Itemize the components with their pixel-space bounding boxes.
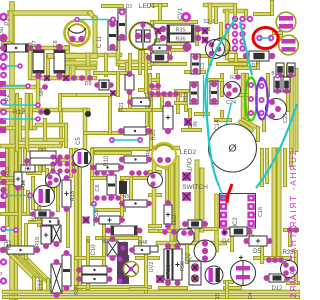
resistor R31 [164, 249, 172, 280]
wire [104, 55, 108, 75]
capacitor C23 [287, 63, 295, 76]
pad l3b [35, 102, 41, 108]
wire [214, 8, 218, 22]
annotation red circle [253, 28, 278, 49]
pad field [57, 168, 62, 173]
pad D12-1 [264, 275, 270, 281]
wire bend [90, 13, 95, 18]
capacitor C4 electrolytic [231, 256, 256, 286]
svg-text:LED: LED [172, 215, 178, 226]
diode D7 [249, 51, 269, 61]
wire [86, 55, 91, 78]
pad C9-2 [110, 255, 116, 261]
pad S3 [110, 90, 116, 96]
wire [18, 150, 22, 254]
pad l4b [35, 116, 41, 122]
pad N1 [109, 137, 115, 143]
svg-text:R26: R26 [74, 285, 80, 295]
pad D6-1 [146, 55, 152, 61]
pad row5 [108, 195, 114, 201]
pad J2-1b [239, 16, 245, 22]
svg-text:CV1: CV1 [178, 8, 184, 20]
wire [96, 151, 130, 155]
capacitor C7 electrolytic [279, 35, 299, 55]
svg-text:R7: R7 [32, 40, 38, 47]
wire [43, 120, 47, 140]
pad P2c [0, 99, 7, 106]
wire [286, 66, 290, 110]
wire [225, 226, 232, 230]
wire [67, 61, 95, 66]
wire [2, 85, 38, 90]
wire [243, 120, 258, 128]
pad R31-2 [165, 280, 171, 286]
pad R5-1 [0, 45, 6, 51]
svg-text:C 11: C 11 [97, 35, 103, 48]
connector K1 [189, 261, 201, 285]
resistor R23 [124, 127, 146, 135]
pad R36-2 [195, 35, 201, 41]
wire diagonal [26, 258, 48, 280]
pad field [64, 161, 69, 166]
resistor R5 [4, 44, 28, 52]
pad J2-5b [239, 45, 245, 51]
pad R28-2 [165, 223, 171, 229]
wire [183, 128, 200, 132]
resistor R25 [82, 266, 107, 274]
pad row5 [94, 195, 100, 201]
pad R9-2 [146, 157, 152, 163]
wire [240, 122, 252, 130]
resistor R11 [124, 200, 147, 207]
pad row2 [155, 91, 161, 97]
pad P1-4 [0, 63, 7, 70]
pad [0, 235, 6, 241]
pad R26-2 [107, 276, 113, 282]
pad TP2 [156, 275, 164, 283]
wire [225, 282, 229, 297]
wire [225, 280, 232, 284]
wire [230, 58, 246, 62]
pad IN [184, 118, 192, 126]
wire [141, 50, 145, 62]
svg-text:R10: R10 [104, 155, 110, 167]
pad P2e [259, 97, 265, 103]
wire [75, 93, 110, 97]
pad J2-7 [225, 23, 231, 29]
pad R11-1 [119, 201, 125, 207]
wire [160, 229, 176, 233]
resistor R2 [111, 226, 137, 235]
pad field [64, 168, 69, 173]
pad row [87, 75, 93, 81]
wire [152, 62, 185, 66]
wire left bus [9, 4, 15, 298]
wire [150, 93, 180, 98]
wire [26, 192, 30, 214]
transistor Q5 [224, 82, 241, 99]
pad C12-1 [64, 250, 70, 256]
pad P1-3 [0, 53, 8, 61]
wire [28, 45, 33, 78]
resistor R26 [82, 275, 107, 283]
wire [2, 181, 22, 185]
svg-text:OUT: OUT [185, 158, 192, 172]
wire [260, 150, 264, 185]
wire bottom rail [4, 290, 298, 295]
resistor R14 [30, 151, 56, 158]
diode D8 [52, 225, 61, 242]
wire [269, 258, 281, 262]
svg-text:D7: D7 [251, 63, 258, 69]
pad cy1 [2, 193, 8, 199]
diode D11 [42, 218, 58, 225]
diode D14 [119, 181, 127, 194]
wire [150, 170, 160, 174]
wire [248, 232, 258, 242]
wire [150, 193, 160, 197]
airwire left [5, 195, 30, 197]
pad J2-3a [232, 31, 238, 37]
wire [168, 44, 172, 56]
capacitor C3 electrolytic [34, 186, 55, 207]
pad [235, 74, 241, 80]
wire [255, 12, 272, 16]
wire bus [64, 48, 70, 78]
pad J2-5a [232, 45, 238, 51]
wire [160, 95, 164, 110]
svg-text:R20: R20 [151, 129, 157, 141]
wire [184, 95, 188, 110]
resistor R29 [99, 216, 120, 224]
wire [262, 120, 266, 130]
pad [0, 179, 6, 185]
capacitor C19 [274, 77, 281, 92]
transistor Q6 C21 [266, 99, 287, 120]
pad cy2 [27, 193, 33, 199]
pad R24-2 [165, 128, 171, 134]
pad J2-4b [239, 38, 245, 44]
resistor R28 [164, 205, 172, 224]
capacitor C12 [62, 255, 71, 286]
pad row4 [136, 170, 142, 176]
resistor R35 [167, 25, 194, 33]
wire [288, 281, 298, 285]
wire [145, 90, 149, 125]
svg-text:D5: D5 [253, 249, 261, 255]
svg-text:D9: D9 [84, 81, 91, 87]
svg-text:D4: D4 [222, 239, 230, 245]
pad [287, 227, 293, 233]
wire [149, 98, 153, 148]
pad R18-1 [64, 175, 70, 181]
wire [2, 144, 60, 149]
capacitor C14 [210, 81, 218, 104]
pad D5-2 [267, 238, 273, 244]
wire [244, 11, 248, 18]
wire [152, 146, 178, 151]
wire [255, 256, 290, 260]
wire [69, 150, 73, 176]
pad R7-1 [35, 44, 42, 51]
svg-text:D13: D13 [183, 92, 189, 102]
pad S8-2 [63, 75, 69, 81]
wire right bus [289, 66, 294, 150]
wire [30, 220, 58, 224]
pad row2 [173, 91, 179, 97]
wire [46, 55, 50, 78]
pad G1 [248, 82, 254, 88]
wire [96, 208, 124, 212]
pad P2-84 [0, 81, 6, 87]
pad row4 [129, 170, 135, 176]
wire [279, 30, 283, 45]
wire [137, 256, 158, 260]
pad P2-93 [0, 90, 6, 96]
pad R16-2 [15, 185, 21, 191]
pad R29-2 [119, 217, 125, 223]
pad D3-1 [182, 221, 188, 227]
pad S2-1 [202, 28, 208, 34]
pad D6-2 [167, 55, 173, 61]
pad R28-1 [165, 200, 171, 206]
wire [37, 208, 41, 225]
wire [230, 238, 234, 250]
wire [3, 41, 10, 45]
svg-text:C1: C1 [200, 62, 206, 69]
capacitor C18 octagon [177, 229, 194, 244]
wire [120, 108, 150, 112]
wire [274, 31, 281, 35]
svg-text:C6: C6 [95, 184, 101, 191]
wire [131, 287, 146, 291]
wire [196, 112, 208, 116]
trimmer RV2 [124, 262, 139, 277]
wire [39, 278, 43, 288]
capacitor C11 [108, 21, 117, 50]
pad [0, 187, 6, 193]
pad [30, 211, 36, 217]
wire [150, 22, 154, 64]
resistor R10 [96, 164, 119, 171]
pad C23 [288, 72, 294, 78]
pad row3 [266, 257, 272, 263]
pad D7-1 [243, 53, 249, 59]
diode D2 [118, 9, 126, 40]
pad via side [38, 109, 44, 115]
capacitor C6 electrolytic [276, 12, 296, 32]
svg-text:P2: P2 [5, 94, 11, 102]
capacitor C15 [205, 266, 223, 284]
wire [93, 147, 152, 151]
svg-text:R8: R8 [146, 150, 152, 157]
wire top rail [10, 10, 90, 16]
pad row [79, 75, 85, 81]
wire diagonal [6, 250, 34, 278]
wire [234, 55, 238, 72]
pad [129, 247, 135, 253]
pad R21-1 [127, 71, 133, 77]
diode D3 [188, 220, 202, 228]
wire left bus 2 [14, 150, 18, 298]
pad cyv [91, 201, 97, 207]
airwire in red circle [260, 37, 272, 39]
wire [266, 75, 270, 95]
wire [245, 75, 249, 122]
wire [76, 285, 150, 289]
wire [25, 95, 30, 150]
via 2 [85, 111, 91, 117]
wire [56, 175, 60, 210]
pad D5-1 [244, 238, 250, 244]
wire [225, 286, 240, 290]
airwire long left [205, 17, 236, 186]
wire [241, 75, 246, 120]
wire [103, 4, 122, 8]
pad S2-4 [155, 28, 161, 34]
pad R23-1 [118, 128, 124, 134]
wire [138, 52, 142, 73]
pad R25-2 [107, 267, 113, 273]
wire [220, 75, 224, 95]
pad G2 [248, 96, 254, 102]
svg-text:R15: R15 [5, 167, 11, 177]
wire [2, 176, 14, 180]
airwire mid [112, 139, 140, 141]
pad D13-1 [191, 82, 197, 88]
pad [0, 170, 6, 176]
pad J2-4a [232, 38, 238, 44]
wire [45, 170, 49, 188]
pad [0, 277, 7, 284]
pad [55, 158, 61, 164]
pad J2-1a [232, 16, 238, 22]
pad field [71, 161, 76, 166]
airwire diag mid [221, 104, 231, 148]
pad R19-2 [43, 243, 49, 249]
pad P2b [0, 109, 7, 116]
pad D2-1 [119, 9, 126, 16]
pad R35-2 [195, 26, 201, 32]
svg-text:R18: R18 [70, 191, 76, 201]
diode D9 [99, 80, 109, 90]
pad field [64, 154, 69, 159]
wire [18, 150, 22, 225]
pad R36-1 [160, 35, 166, 41]
pad R21-2 [127, 89, 133, 95]
pad field [71, 154, 76, 159]
pad D9-1 [94, 82, 100, 88]
pad C14-1 [211, 81, 217, 87]
wire [90, 150, 94, 204]
svg-text:Q2: Q2 [186, 252, 192, 261]
svg-text:R6: R6 [25, 167, 32, 173]
pad [293, 227, 299, 233]
pad row [71, 75, 77, 81]
wire [165, 168, 169, 203]
wire [256, 60, 260, 68]
wire [83, 110, 88, 150]
diode D5 [249, 236, 267, 246]
wire [170, 158, 175, 262]
svg-text:50: 50 [0, 27, 5, 33]
svg-text:S2-1: S2-1 [203, 19, 215, 25]
resistor R19 [41, 226, 51, 244]
pad P1-2 [0, 34, 8, 42]
pad P1-1 [0, 13, 8, 21]
wire [152, 3, 166, 7]
pad R17-1 [0, 247, 6, 253]
pad J2-2a [232, 23, 238, 29]
wire [53, 158, 75, 162]
pad [275, 74, 280, 79]
pad row4 [101, 170, 107, 176]
wire [28, 46, 67, 51]
svg-text:SWITCH: SWITCH [182, 184, 208, 191]
wire [24, 225, 28, 258]
pad R10-2 [118, 165, 124, 171]
pad P2-130 [0, 127, 6, 133]
capacitor CP1 electrolytic [129, 22, 157, 50]
wire [195, 27, 199, 44]
transistor Q2 [194, 240, 216, 262]
pad row4 [143, 170, 149, 176]
airwire diag [240, 22, 252, 75]
pad field [71, 168, 76, 173]
pad [42, 84, 48, 90]
airwire tail [219, 186, 223, 195]
pad C11-1 [109, 21, 116, 28]
airwire l2 [3, 85, 28, 87]
resistor R4 [134, 246, 150, 254]
pad C19 [275, 88, 281, 94]
wire [116, 73, 120, 95]
resistor R13 [30, 158, 56, 165]
wire [92, 176, 110, 180]
diode D10 [35, 210, 50, 218]
pad [49, 211, 55, 217]
LED D1 LED1 [65, 21, 90, 46]
pad R31-1 [165, 243, 171, 249]
wire [76, 256, 104, 260]
wire [185, 243, 189, 262]
diode D4 [230, 227, 247, 236]
pad row2 [149, 91, 155, 97]
capacitor C27 dark [118, 242, 128, 255]
svg-text:C15: C15 [215, 293, 221, 300]
wire [150, 224, 160, 228]
pad l2b [25, 83, 31, 89]
resistor R22 [132, 98, 150, 106]
pad D13-2 [191, 98, 197, 104]
resistor R16 [14, 172, 22, 186]
pad row5 [115, 195, 121, 201]
svg-text:C4: C4 [248, 292, 254, 299]
wire [277, 150, 282, 255]
resistor R18 [62, 180, 71, 207]
pad P3e [259, 110, 265, 116]
wire [202, 54, 210, 58]
pad C13-2 [54, 292, 60, 298]
via [44, 109, 51, 116]
svg-text:C5: C5 [76, 137, 82, 145]
wire [144, 255, 148, 292]
wire [200, 170, 205, 230]
wire [270, 2, 274, 14]
resistor R7 [33, 50, 44, 73]
pad row2 [161, 91, 167, 97]
svg-text:R48: R48 [138, 240, 147, 246]
